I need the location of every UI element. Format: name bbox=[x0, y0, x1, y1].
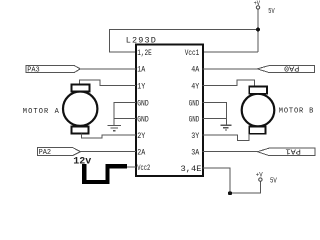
svg-text:2A: 2A bbox=[137, 148, 146, 158]
ground (right) bbox=[221, 125, 232, 130]
IC U1 L293D motor driver body bbox=[136, 44, 203, 176]
svg-text:4Y: 4Y bbox=[191, 81, 199, 91]
wire right GND pins loop bbox=[202, 102, 226, 118]
ground (left) bbox=[108, 125, 122, 130]
svg-text:2Y: 2Y bbox=[137, 131, 145, 141]
svg-text:5V: 5V bbox=[268, 8, 275, 16]
svg-text:GND: GND bbox=[189, 115, 200, 125]
motor B top terminal bbox=[249, 87, 267, 94]
svg-text:3,4E: 3,4E bbox=[181, 164, 202, 174]
svg-text:1Y: 1Y bbox=[137, 81, 145, 91]
motor A top terminal bbox=[72, 85, 90, 92]
wire left GND pins loop bbox=[114, 102, 136, 118]
wire Vcc1 to +5V rail bbox=[202, 51, 258, 53]
svg-text:PA0: PA0 bbox=[284, 63, 300, 71]
node PA3 tag bbox=[26, 65, 80, 74]
wire ground stub (right) bbox=[225, 119, 227, 126]
node PA2 tag bbox=[38, 148, 81, 158]
svg-text:1,2E: 1,2E bbox=[137, 48, 152, 58]
svg-text:3A: 3A bbox=[191, 148, 200, 158]
svg-text:+V: +V bbox=[254, 0, 261, 7]
wire ground stub (left) bbox=[113, 119, 115, 126]
svg-text:PA3: PA3 bbox=[27, 67, 40, 75]
wire pin 1Y to motor A top terminal bbox=[80, 80, 137, 85]
wire thick 12V feed to Vcc2 bbox=[84, 164, 127, 182]
motor B bottom terminal bbox=[249, 126, 265, 133]
wire Vcc2 pin stub bbox=[127, 166, 136, 168]
svg-text:PA2: PA2 bbox=[39, 149, 52, 157]
svg-text:MOTOR B: MOTOR B bbox=[279, 107, 314, 115]
svg-text:GND: GND bbox=[137, 115, 149, 125]
svg-text:5V: 5V bbox=[270, 177, 277, 185]
wire pin 3,4E to +5V (bottom) bbox=[202, 168, 260, 193]
wire PA3 to pin 1A bbox=[80, 68, 136, 70]
svg-text:Vcc1: Vcc1 bbox=[185, 48, 200, 58]
svg-text:L293D: L293D bbox=[126, 36, 156, 46]
svg-text:+V: +V bbox=[256, 171, 263, 178]
svg-text:3Y: 3Y bbox=[191, 131, 199, 141]
svg-text:GND: GND bbox=[189, 98, 200, 108]
power terminal +V 5V (bottom) bbox=[256, 171, 278, 185]
motor A circle bbox=[63, 92, 97, 126]
junction dot on +5V rail bbox=[256, 28, 260, 32]
motor A bottom terminal bbox=[72, 127, 89, 134]
svg-text:MOTOR A: MOTOR A bbox=[23, 108, 60, 116]
node PA0 tag (rotated) bbox=[257, 63, 314, 72]
wire 1,2E enable loop to +5V rail bbox=[110, 30, 259, 52]
svg-text:1A: 1A bbox=[137, 65, 146, 75]
motor B circle bbox=[242, 94, 275, 127]
wire pin 4A to PA0 bbox=[202, 68, 257, 70]
svg-text:PA1: PA1 bbox=[285, 146, 301, 154]
wire +5V vertical down to Vcc1 level bbox=[257, 10, 259, 52]
svg-text:GND: GND bbox=[137, 98, 149, 108]
wire pin 3Y to motor B bottom terminal bbox=[202, 134, 248, 141]
power terminal +V 5V (top) bbox=[254, 0, 276, 16]
wire pin 4Y to motor B top terminal bbox=[202, 80, 254, 87]
svg-text:Vcc2: Vcc2 bbox=[137, 163, 150, 173]
svg-text:4A: 4A bbox=[191, 65, 200, 75]
wire motor A bottom terminal to pin 2Y bbox=[81, 134, 136, 138]
node PA1 tag (rotated) bbox=[258, 146, 315, 155]
wire PA2 to pin 2A bbox=[81, 151, 137, 153]
wire pin 3A to PA1 bbox=[202, 151, 258, 153]
junction dot (bottom) bbox=[228, 191, 232, 195]
